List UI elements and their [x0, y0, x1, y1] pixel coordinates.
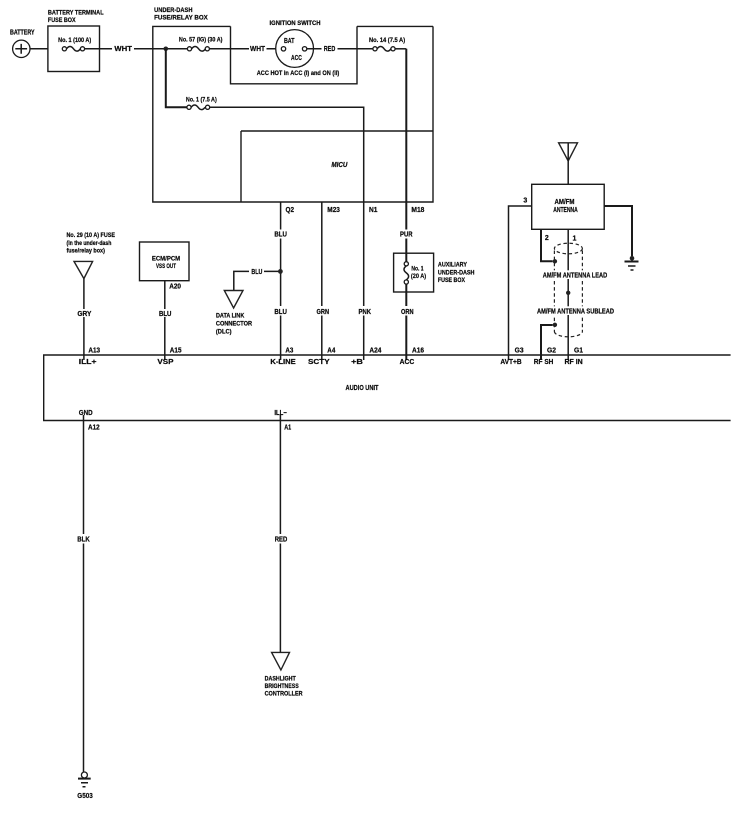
svg-text:BLU: BLU — [159, 311, 172, 318]
svg-text:FUSE BOX: FUSE BOX — [48, 17, 76, 24]
fuse No.1 (100 A) in battery terminal fuse box — [58, 37, 91, 51]
svg-text:+B: +B — [351, 359, 363, 366]
junction dot pin2/shield — [553, 259, 557, 263]
wire M18 vertical (PUR/ORN to ACC) — [405, 49, 407, 360]
battery symbol — [10, 30, 35, 58]
svg-text:A12: A12 — [88, 424, 100, 431]
svg-text:M18: M18 — [411, 207, 424, 214]
svg-text:No. 1 (100 A): No. 1 (100 A) — [58, 37, 91, 44]
svg-text:G2: G2 — [547, 347, 556, 354]
svg-text:G3: G3 — [515, 347, 524, 354]
data link connector text — [216, 313, 253, 336]
svg-text:A16: A16 — [412, 347, 424, 354]
svg-text:G1: G1 — [574, 347, 583, 354]
svg-text:IGNITION SWITCH: IGNITION SWITCH — [270, 20, 321, 27]
wire pin 1 (RF IN) — [567, 229, 569, 360]
No.29 fuse note text — [67, 232, 116, 254]
svg-text:N1: N1 — [369, 207, 378, 214]
svg-text:Q2: Q2 — [286, 207, 295, 214]
svg-text:K-LINE: K-LINE — [270, 359, 296, 366]
svg-text:FUSE/RELAY BOX: FUSE/RELAY BOX — [154, 15, 208, 22]
svg-text:BLU: BLU — [274, 309, 287, 316]
svg-text:SCTY: SCTY — [308, 359, 330, 366]
wire antenna box to body ground — [604, 206, 632, 256]
wire battery to battery terminal fuse box (WHT) — [30, 48, 48, 50]
svg-text:(20 A): (20 A) — [411, 273, 426, 280]
fuse No.1 (20 A) vertical in aux box — [404, 262, 426, 284]
svg-text:DATA LINK: DATA LINK — [216, 313, 245, 320]
svg-text:A20: A20 — [169, 284, 181, 291]
svg-text:ACC HOT in ACC (I) and ON (II): ACC HOT in ACC (I) and ON (II) — [257, 70, 340, 77]
svg-text:No. 1: No. 1 — [411, 266, 424, 273]
svg-text:FUSE BOX: FUSE BOX — [438, 277, 466, 284]
svg-text:RF SH: RF SH — [534, 359, 554, 366]
svg-text:AVT+B: AVT+B — [500, 359, 521, 366]
ACC HOT box — [231, 26, 358, 83]
svg-text:No. 14 (7.5 A): No. 14 (7.5 A) — [369, 37, 405, 44]
ignition switch — [270, 20, 321, 67]
svg-text:CONNECTOR: CONNECTOR — [216, 321, 253, 328]
AM/FM antenna box U1 — [532, 184, 605, 229]
svg-text:M23: M23 — [327, 207, 340, 214]
svg-text:AM/FM: AM/FM — [555, 199, 575, 206]
svg-text:ECM/PCM: ECM/PCM — [152, 256, 180, 263]
svg-text:MICU: MICU — [331, 162, 348, 169]
svg-text:AM/FM ANTENNA SUBLEAD: AM/FM ANTENNA SUBLEAD — [537, 309, 614, 316]
No.29 fuse connector triangle — [74, 261, 93, 278]
data link connector triangle — [224, 291, 243, 309]
svg-text:ILL+: ILL+ — [79, 359, 97, 366]
No.14 fuse box top edge — [357, 25, 433, 27]
under-dash fuse/relay box outline — [153, 7, 433, 202]
svg-text:ACC: ACC — [400, 359, 415, 366]
svg-text:ANTENNA: ANTENNA — [553, 207, 578, 214]
svg-text:2: 2 — [545, 235, 549, 242]
svg-text:GRN: GRN — [317, 309, 330, 316]
junction dot lead/sublead — [566, 291, 570, 295]
svg-text:RED: RED — [324, 46, 336, 53]
svg-text:No. 57 (IG) (30 A): No. 57 (IG) (30 A) — [179, 37, 223, 44]
MICU box — [241, 131, 433, 202]
fuse No.14 (7.5 A) — [369, 37, 405, 51]
wire ILL- (RED) to dashlight controller — [279, 415, 281, 652]
wire G2 (RF SH) to sublead shield — [541, 325, 553, 360]
svg-text:3: 3 — [523, 198, 527, 205]
wire pin3 to AVT+B (G3) — [509, 206, 532, 360]
svg-text:ORN: ORN — [401, 309, 414, 316]
svg-text:BATTERY TERMINAL: BATTERY TERMINAL — [48, 10, 104, 17]
svg-text:RF IN: RF IN — [564, 359, 582, 366]
ignition switch ACC terminal — [302, 47, 306, 51]
wire fuse 57 to ignition switch, WHT label — [209, 46, 281, 53]
wire pin 2 to antenna lead shield — [541, 229, 553, 261]
svg-text:No. 1 (7.5 A): No. 1 (7.5 A) — [186, 96, 217, 103]
svg-text:BRIGHTNESS: BRIGHTNESS — [265, 683, 299, 690]
svg-text:VSS OUT: VSS OUT — [156, 263, 176, 270]
wire fuse 14 to M18 drop — [395, 48, 406, 50]
wire fuse box to under-dash box, WHT label — [85, 46, 153, 53]
fuse No.57 (IG) (30 A) — [179, 37, 223, 52]
ignition switch BAT terminal — [281, 47, 285, 51]
label AM/FM ANTENNA SUBLEAD — [535, 306, 616, 315]
svg-text:PNK: PNK — [359, 309, 372, 316]
svg-text:BLU: BLU — [274, 232, 287, 239]
audio unit box — [44, 355, 731, 421]
dashlight brightness controller text — [265, 676, 303, 698]
wire BLU (VSP) — [164, 281, 166, 360]
wire Q2 (BLU, K-LINE) — [280, 202, 282, 360]
svg-text:BATTERY: BATTERY — [10, 30, 35, 37]
svg-text:A1: A1 — [284, 424, 291, 431]
svg-text:VSP: VSP — [157, 359, 173, 366]
svg-text:AM/FM ANTENNA LEAD: AM/FM ANTENNA LEAD — [543, 273, 608, 280]
svg-text:UNDER-DASH: UNDER-DASH — [154, 7, 193, 14]
svg-text:1: 1 — [573, 236, 577, 243]
junction dot G2/shield — [553, 323, 557, 327]
svg-text:CONTROLLER: CONTROLLER — [265, 690, 303, 697]
wire DLC branch (BLU) — [234, 269, 279, 291]
ground G503 — [77, 772, 93, 800]
dashlight brightness controller triangle — [272, 652, 290, 670]
svg-text:A24: A24 — [369, 347, 381, 354]
svg-text:DASHLIGHT: DASHLIGHT — [265, 676, 296, 683]
svg-text:A3: A3 — [285, 347, 293, 354]
wire M23 (GRN, SCTY) — [321, 202, 323, 360]
svg-text:BAT: BAT — [284, 38, 295, 45]
svg-text:GND: GND — [79, 410, 93, 417]
svg-text:fuse/relay box): fuse/relay box) — [67, 247, 105, 254]
svg-text:A13: A13 — [88, 347, 100, 354]
label AM/FM ANTENNA LEAD — [540, 270, 610, 279]
svg-text:ACC: ACC — [291, 55, 302, 62]
svg-text:(DLC): (DLC) — [216, 328, 232, 335]
svg-text:AUXILIARY: AUXILIARY — [438, 261, 468, 268]
battery terminal fuse box — [48, 10, 104, 72]
svg-text:PUR: PUR — [400, 232, 413, 239]
junction dot — [164, 47, 169, 52]
svg-text:G503: G503 — [77, 793, 93, 800]
svg-text:(In the under-dash: (In the under-dash — [67, 240, 112, 247]
svg-text:WHT: WHT — [250, 46, 266, 53]
svg-text:WHT: WHT — [114, 46, 132, 53]
branch wire from junction to fuse No.1 (7.5A) — [166, 49, 187, 108]
antenna lead shield dashed cylinder — [554, 243, 582, 337]
svg-text:UNDER-DASH: UNDER-DASH — [438, 269, 475, 276]
fuse No.1 (7.5 A) — [186, 96, 217, 109]
ECM/PCM VSS OUT box — [140, 242, 190, 281]
wire ignition to fuse 14, RED label — [307, 46, 373, 53]
wire fuse No.1 to N1 drop — [210, 107, 364, 202]
wire N1 (PNK, +B) — [363, 202, 365, 360]
junction dot on Q2 wire — [278, 269, 283, 274]
svg-text:A15: A15 — [170, 347, 182, 354]
svg-text:RED: RED — [275, 537, 288, 544]
svg-text:GRY: GRY — [77, 311, 91, 318]
svg-text:BLU: BLU — [251, 269, 262, 276]
wire GND (BLK) to G503 — [83, 415, 85, 772]
wire GRY (ILL+) — [83, 279, 85, 360]
auxiliary under-dash fuse box — [394, 253, 475, 292]
svg-text:BLK: BLK — [77, 537, 90, 544]
svg-text:No. 29 (10 A) FUSE: No. 29 (10 A) FUSE — [67, 232, 116, 239]
wire into box and junction node — [153, 48, 188, 50]
body ground symbol — [625, 256, 639, 270]
svg-text:AUDIO UNIT: AUDIO UNIT — [346, 385, 380, 392]
svg-text:A4: A4 — [327, 347, 335, 354]
antenna mast symbol — [559, 143, 578, 185]
